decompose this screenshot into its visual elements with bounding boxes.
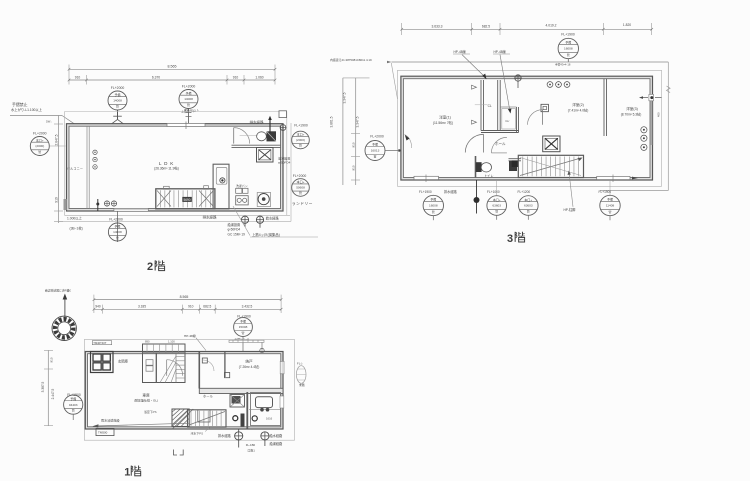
level bubble FL+2000 <box>365 135 385 161</box>
switch symbols on balcony wall <box>93 150 97 169</box>
washbasin dark box <box>509 161 517 171</box>
cooktop with burners <box>236 196 249 205</box>
svg-text:本口+: 本口+ <box>297 132 305 137</box>
svg-text:内振違え21:2875081C8011.4.19: 内振違え21:2875081C8011.4.19 <box>330 57 372 62</box>
window in 2F bottom wall <box>114 208 148 211</box>
svg-text:3.633.3: 3.633.3 <box>432 24 443 28</box>
svg-text:3.347.5: 3.347.5 <box>356 116 360 127</box>
svg-text:TM500: TM500 <box>98 431 108 435</box>
window marker on eaves line <box>279 111 287 118</box>
svg-text:940: 940 <box>95 305 101 309</box>
svg-text:910: 910 <box>352 165 356 170</box>
closet bottom wall <box>481 131 519 133</box>
kitchen appliance boxes <box>236 188 248 193</box>
window in 1F right wall lower <box>280 396 284 408</box>
1F bottom drain symbol B <box>261 432 269 446</box>
svg-text:予備: 予備 <box>70 396 76 401</box>
svg-text:FL+2000: FL+2000 <box>33 131 47 135</box>
svg-text:湯沸設置: 湯沸設置 <box>278 155 290 160</box>
svg-text:3: 3 <box>507 233 513 245</box>
svg-text:管: 管 <box>495 209 498 214</box>
stem and note under 1F top bubble <box>234 337 249 352</box>
svg-text:本口+: 本口+ <box>36 137 44 142</box>
svg-text:ホール: ホール <box>203 394 214 399</box>
svg-text:910: 910 <box>75 75 81 79</box>
svg-text:排水経路: 排水経路 <box>444 189 458 194</box>
handrail note top-left <box>11 102 43 112</box>
svg-text:3.861.5: 3.861.5 <box>330 116 334 127</box>
svg-text:FL+1900: FL+1900 <box>599 190 612 194</box>
1F bottom drain symbol A <box>235 429 243 447</box>
window in right wall <box>639 94 662 100</box>
svg-text:(2000): (2000) <box>296 138 305 142</box>
svg-text:DW↓: DW↓ <box>46 120 52 124</box>
1F overall dimension line 8.565 <box>93 295 283 313</box>
handrail note with leader <box>406 142 441 150</box>
room3 label <box>621 106 642 116</box>
svg-text:給水経路: 給水経路 <box>266 215 280 220</box>
drain route label and riser arrow <box>250 116 272 133</box>
HP post label 1 with leader <box>453 49 487 79</box>
svg-text:FL+1000: FL+1000 <box>487 190 500 194</box>
2F segment dimension line 910 / 6.370 / 910 / 1.060 <box>68 75 277 85</box>
room2 door arc <box>528 110 543 125</box>
1F left vertical dimension line <box>41 350 55 426</box>
svg-text:15008: 15008 <box>239 325 248 329</box>
svg-text:管: 管 <box>72 408 75 413</box>
svg-text:φ-50FD4: φ-50FD4 <box>278 161 291 165</box>
stems for bottom bubbles <box>433 181 610 220</box>
toilet room walls <box>476 156 522 178</box>
newel posts above staircase <box>164 186 209 190</box>
2F overall dimension line 8.565 <box>68 65 277 85</box>
svg-text:管: 管 <box>567 52 570 57</box>
water heater note <box>278 155 291 164</box>
svg-text:682.5: 682.5 <box>203 305 211 309</box>
fan symbol on right wall <box>280 125 286 131</box>
svg-text:910: 910 <box>54 197 58 203</box>
boundary note line with text <box>330 57 668 99</box>
svg-text:車庫: 車庫 <box>142 392 150 397</box>
svg-text:2.847.5: 2.847.5 <box>54 134 58 145</box>
2F exterior wall outline (double line) <box>67 124 284 211</box>
3F exterior wall outline (double line) <box>401 76 653 180</box>
washing machine <box>257 193 270 207</box>
svg-text:FL-1B0: FL-1B0 <box>246 443 256 447</box>
pipe shaft box with X <box>257 148 274 163</box>
svg-text:予備: 予備 <box>565 40 571 45</box>
svg-text:口扱1: 口扱1 <box>248 447 256 452</box>
svg-text:洋室(1): 洋室(1) <box>439 115 451 120</box>
svg-text:3.432.5: 3.432.5 <box>242 305 253 309</box>
svg-text:2: 2 <box>147 261 153 273</box>
svg-text:洋室(3): 洋室(3) <box>626 106 638 111</box>
hot water note block <box>228 222 246 237</box>
svg-text:予備: 予備 <box>185 90 191 95</box>
svg-text:FL+2000: FL+2000 <box>109 218 123 222</box>
svg-text:管: 管 <box>116 104 119 109</box>
outlet symbols pair lower-left <box>96 199 116 211</box>
svg-text:3.347.5: 3.347.5 <box>342 92 346 103</box>
svg-text:浴室下PS: 浴室下PS <box>144 409 157 414</box>
svg-text:14008: 14008 <box>113 99 122 103</box>
black arrow at left wall <box>405 135 410 141</box>
svg-text:給湯設置: 給湯設置 <box>228 222 241 227</box>
svg-text:雨水浸透施設: 雨水浸透施設 <box>101 417 120 422</box>
3F eaves outline thin rectangle <box>398 70 662 186</box>
svg-text:FL+2000: FL+2000 <box>370 135 384 139</box>
svg-text:本口+: 本口+ <box>524 197 532 202</box>
2F lower annotations <box>67 216 83 231</box>
drain symbol 1 below kitchen <box>241 216 248 227</box>
stem under left bubble <box>72 414 74 420</box>
washroom walls top-middle <box>199 352 225 389</box>
toilet door arc <box>491 137 507 153</box>
svg-text:(7.26m² 4.4帖): (7.26m² 4.4帖) <box>239 364 260 369</box>
note text below bubble <box>181 108 199 113</box>
svg-text:FL+2000: FL+2000 <box>293 174 307 178</box>
svg-text:8.565: 8.565 <box>180 295 189 299</box>
room1 label <box>433 115 453 126</box>
svg-text:予備: 予備 <box>114 224 120 229</box>
svg-text:FL+2000: FL+2000 <box>182 84 196 88</box>
svg-text:910: 910 <box>188 305 194 309</box>
svg-text:1.000以上: 1.000以上 <box>67 216 83 221</box>
washroom fixtures 1F <box>230 392 247 429</box>
leader line from note to wall corner <box>10 116 77 126</box>
svg-text:1.820: 1.820 <box>623 23 631 27</box>
level bubble FL+2000 <box>292 174 310 196</box>
closet divider wall <box>498 80 501 131</box>
toilet door swing arc <box>234 128 250 144</box>
svg-text:(8.70m² 5.3帖): (8.70m² 5.3帖) <box>621 111 642 116</box>
svg-text:納戸: 納戸 <box>245 359 253 364</box>
drain stem below toilet <box>474 180 480 214</box>
svg-text:洗濯パン: 洗濯パン <box>236 183 248 188</box>
svg-text:排水経路: 排水経路 <box>218 433 232 438</box>
svg-text:CL: CL <box>488 104 492 108</box>
svg-text:63603: 63603 <box>492 204 501 208</box>
unit bath 1F <box>249 393 281 426</box>
svg-text:(2000): (2000) <box>35 144 44 148</box>
svg-text:GC 15M² 19: GC 15M² 19 <box>228 233 246 237</box>
toilet fixture <box>240 131 276 141</box>
riser stem through lower bubble <box>116 211 118 242</box>
1F exterior wall outline (double line) <box>85 352 283 430</box>
leader from bubble to wall with arrow <box>385 149 404 152</box>
svg-text:置: 置 <box>373 154 376 159</box>
leader to sliding door note <box>233 206 318 237</box>
svg-text:管: 管 <box>299 143 302 148</box>
2F left vertical dimension line 2.847.5 <box>54 116 63 224</box>
middle wall horizontal 1F <box>199 388 283 393</box>
svg-text:16008: 16008 <box>564 47 573 51</box>
HP post label 2 with leader <box>493 49 512 114</box>
1F canopy outline thin rectangle <box>84 340 294 441</box>
window in 3F bottom wall left <box>414 175 439 183</box>
porch railing on canopy line <box>229 340 264 352</box>
svg-text:(11.56m² 7帖): (11.56m² 7帖) <box>433 120 453 125</box>
3F segment dimension line 3.633.3 / 682.5 / 4.019.2 / 1.820 <box>400 23 653 35</box>
stem below bubble <box>567 59 569 62</box>
svg-text:予備: 予備 <box>372 142 378 147</box>
level bubble FL+1900 <box>558 33 578 59</box>
closet labels <box>488 104 510 123</box>
entrance storage label box <box>92 341 111 345</box>
rain leader arrow in garage <box>93 417 191 427</box>
2F eaves outline thin rectangle <box>59 112 292 222</box>
bay bubble outside right wall <box>296 361 306 387</box>
svg-text:CL/: CL/ <box>505 119 509 123</box>
svg-text:(7.41m² 4.0帖): (7.41m² 4.0帖) <box>568 107 589 112</box>
svg-text:16013: 16013 <box>371 149 380 153</box>
svg-text:バルコニー: バルコニー <box>67 167 83 171</box>
svg-text:(耐圧盤仕様・GL): (耐圧盤仕様・GL) <box>134 398 158 403</box>
level bubble FL+1900 <box>64 393 83 414</box>
svg-text:(3B−1枚): (3B−1枚) <box>70 225 83 230</box>
svg-text:玄関庫: 玄関庫 <box>118 359 129 364</box>
svg-text:上筋4ッ戸(講集品): 上筋4ッ戸(講集品) <box>252 232 280 237</box>
svg-text:HP-48線: HP-48線 <box>454 49 467 54</box>
svg-text:汚水下PS: 汚水下PS <box>191 431 204 436</box>
1F bottom staircase <box>188 410 227 427</box>
3F toilet fixture <box>476 162 492 172</box>
svg-text:910: 910 <box>352 142 356 147</box>
level bubble <box>423 195 443 215</box>
svg-text:FL-): FL-) <box>297 361 303 365</box>
svg-text:FL+1900: FL+1900 <box>561 33 575 37</box>
svg-text:本口+: 本口+ <box>297 179 305 184</box>
svg-text:HP-48線: HP-48線 <box>494 49 507 54</box>
svg-text:φ-50FD4: φ-50FD4 <box>228 228 241 232</box>
drain symbol 2 below kitchen <box>256 216 263 228</box>
svg-text:ランドリー: ランドリー <box>292 201 313 206</box>
kitchen island counter <box>213 164 229 209</box>
svg-text:管: 管 <box>38 149 41 154</box>
svg-text:16008: 16008 <box>429 204 438 208</box>
level bubble <box>519 196 539 216</box>
hall wall <box>155 353 157 383</box>
svg-text:1: 1 <box>124 467 130 479</box>
svg-text:確認申請図に決R書£: 確認申請図に決R書£ <box>45 288 71 292</box>
door arc room1 entrance <box>465 134 483 152</box>
leader from left bubble to wall <box>49 145 65 147</box>
svg-text:予備: 予備 <box>430 197 436 202</box>
svg-text:未筋: 未筋 <box>299 382 305 387</box>
svg-text:682.5: 682.5 <box>482 24 490 28</box>
svg-text:本口+: 本口+ <box>493 197 501 202</box>
1F staircase upper runs <box>143 340 186 383</box>
wall between room2 and room3 <box>604 79 607 136</box>
svg-text:FL+1900: FL+1900 <box>419 190 432 194</box>
svg-text:予備: 予備 <box>607 197 613 202</box>
wall shading right side <box>650 97 653 145</box>
ceiling fan circles row <box>515 75 570 88</box>
window in 2F top wall <box>167 122 205 130</box>
small box symbol <box>225 373 230 378</box>
toilet room partition wall <box>232 145 281 147</box>
entrance grid window (4 panes) <box>91 352 114 373</box>
under-stair cabinets <box>146 360 153 371</box>
level bubble FL+1900 <box>292 124 310 149</box>
storeroom label <box>239 359 260 369</box>
svg-text:FL+1200: FL+1200 <box>518 190 531 194</box>
infiltration box TM500 <box>96 428 114 435</box>
svg-text:6.370: 6.370 <box>152 75 160 79</box>
hall door arc 1F <box>167 360 183 376</box>
svg-text:管: 管 <box>241 330 244 335</box>
svg-text:50608: 50608 <box>296 186 305 190</box>
svg-text:2.447.5: 2.447.5 <box>51 388 55 399</box>
closet shelf and right wall <box>500 107 518 133</box>
svg-text:400: 400 <box>657 112 661 117</box>
HP footing label with leader <box>564 171 576 212</box>
level bubble FL+1900 <box>234 314 253 336</box>
level bubble <box>600 195 620 215</box>
svg-text:手摺禁止: 手摺禁止 <box>12 102 28 107</box>
svg-text:手摺43=4-18: 手摺43=4-18 <box>555 62 571 66</box>
svg-text:排水経路: 排水経路 <box>203 214 217 219</box>
3F staircase <box>512 155 584 177</box>
north arrow <box>45 288 71 318</box>
svg-text:04403: 04403 <box>69 403 78 407</box>
svg-text:14008: 14008 <box>184 97 193 101</box>
level bubble FL+2000 <box>30 131 49 155</box>
room1 right wall <box>481 80 484 131</box>
svg-text:890: 890 <box>145 340 150 344</box>
level bubble FL+2000 <box>108 218 126 241</box>
svg-text:FL+2000: FL+2000 <box>111 86 125 90</box>
svg-text:管: 管 <box>432 209 435 214</box>
svg-text:4.019.2: 4.019.2 <box>546 24 557 28</box>
svg-text:トイレ: トイレ <box>484 174 494 178</box>
LDK room label <box>154 161 179 171</box>
HP label 1F with leader <box>184 333 206 351</box>
vent riser tripod symbol below bubble <box>109 110 127 125</box>
svg-text:管: 管 <box>299 190 302 195</box>
svg-text:11408: 11408 <box>606 204 615 208</box>
1F drain route labels <box>218 433 283 452</box>
svg-text:給湯経路: 給湯経路 <box>270 441 284 446</box>
svg-text:給水経路: 給水経路 <box>270 433 284 438</box>
svg-text:5690: 5690 <box>183 198 190 202</box>
vent shaft box with X 3F <box>543 136 560 152</box>
3F plan group <box>330 23 671 245</box>
svg-text:L D K: L D K <box>159 161 174 166</box>
svg-text:910: 910 <box>233 75 239 79</box>
svg-text:TM40T40T: TM40T40T <box>93 341 107 345</box>
svg-text:14008: 14008 <box>113 230 122 234</box>
2F staircase <box>156 189 215 209</box>
sensor circles column room3 <box>641 127 647 151</box>
window in 1F right wall <box>280 361 284 374</box>
svg-text:63603: 63603 <box>524 204 533 208</box>
1F plan group <box>41 288 306 478</box>
room2 label <box>568 102 589 112</box>
hatched shaft box garage <box>172 409 193 429</box>
svg-text:(26.36m² 11.9帖): (26.36m² 11.9帖) <box>154 166 179 171</box>
3F left vertical dimension lines <box>330 78 370 185</box>
arc near left wall <box>405 135 412 149</box>
svg-text:管: 管 <box>608 209 611 214</box>
level bubble FL+2000 <box>179 84 198 108</box>
riser stem from bubble to wall <box>186 109 192 125</box>
section mark brackets <box>174 450 184 456</box>
svg-text:洋室(2): 洋室(2) <box>572 102 584 107</box>
2F plan group <box>10 65 318 274</box>
svg-text:FL+1900: FL+1900 <box>294 124 308 128</box>
balcony partition rail <box>87 126 89 208</box>
1F segment dimension line 940 / 3.185 / 910 / 682.5 / 3.432.5 <box>93 305 283 314</box>
window arrows on room1 wall <box>472 85 488 124</box>
svg-text:予備: 予備 <box>114 92 120 97</box>
svg-text:管: 管 <box>116 235 119 240</box>
compass rose <box>52 316 76 340</box>
svg-text:HP-48線: HP-48線 <box>184 333 196 338</box>
svg-text:1.100: 1.100 <box>168 340 175 344</box>
svg-text:管: 管 <box>527 209 530 214</box>
left wall lower shading <box>64 199 67 210</box>
svg-text:HP-柱脚: HP-柱脚 <box>564 207 576 212</box>
3F bottom bubble labels <box>419 189 611 194</box>
svg-text:910: 910 <box>50 357 54 362</box>
svg-text:3.185: 3.185 <box>138 305 146 309</box>
level bubble FL+2000 <box>108 86 127 110</box>
svg-text:3.387.5: 3.387.5 <box>41 381 45 392</box>
svg-text:予備: 予備 <box>240 318 246 323</box>
svg-text:排水経路: 排水経路 <box>250 119 264 124</box>
svg-text:8.565: 8.565 <box>168 65 177 69</box>
svg-text:水上がり-L1.100以上: 水上がり-L1.100以上 <box>11 107 43 112</box>
svg-text:管: 管 <box>187 102 190 107</box>
site boundary right edge <box>600 62 670 191</box>
level bubble <box>487 196 507 216</box>
svg-text:1616: 1616 <box>266 417 273 421</box>
svg-text:1.060: 1.060 <box>255 75 263 79</box>
garage label <box>134 392 158 402</box>
picture box symbol near room2 <box>541 104 548 111</box>
window in 3F bottom wall <box>597 175 638 183</box>
